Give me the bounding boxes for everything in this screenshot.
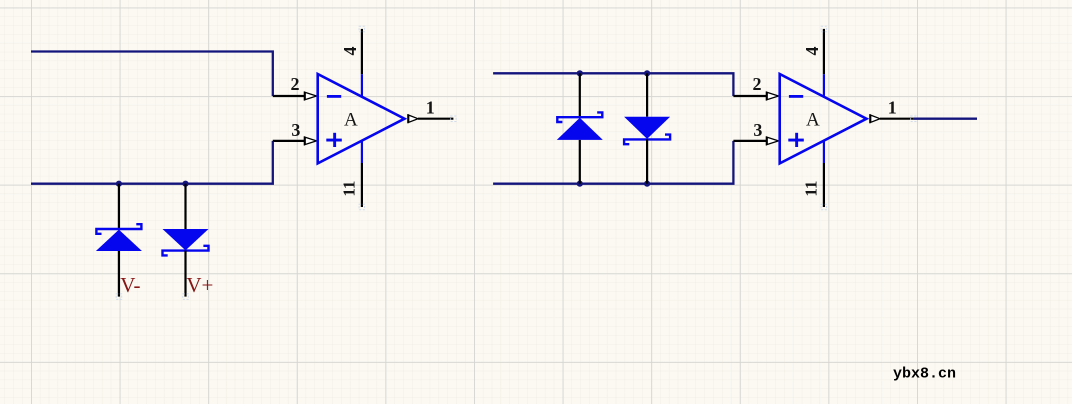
diode D4 lead (top) [646, 73, 648, 116]
op-amp U1 pin 11 (V-) line [361, 141, 363, 207]
op-amp U2 pin 2 stub [733, 95, 766, 97]
op-amp U1 output pin 1 stub [418, 118, 453, 120]
op-amp U2 pin 4 (V+) line [823, 29, 825, 97]
op-amp U2 pin 11 (V-) line [823, 141, 825, 207]
hotspot marker at pin 4 top (U1) [359, 26, 365, 32]
hotspot marker at pin 4 top (U2) [821, 26, 827, 32]
diode D2 lead (bottom) [184, 251, 186, 297]
svg-text:1: 1 [426, 98, 435, 118]
diode D2 body (cathode triangle down) [163, 229, 209, 250]
diode D1 zener cathode bar [96, 224, 141, 234]
svg-text:V-: V- [120, 273, 140, 297]
op-amp U1 pin 2 arrow [304, 91, 318, 100]
diode D2 zener cathode bar [163, 246, 209, 256]
svg-text:11: 11 [340, 181, 359, 197]
op-amp U1 non-inverting plus sign [326, 133, 342, 147]
svg-text:A: A [344, 110, 358, 131]
diode D4 lead (bottom) [646, 139, 648, 183]
hotspot marker at U1 output end [451, 116, 457, 122]
svg-text:1: 1 [888, 98, 897, 118]
op-amp U1 pin 2 stub [273, 95, 305, 97]
op-amp U1 pin 4 (V+) line [361, 29, 363, 97]
op-amp U1 output pin 1 arrow [408, 114, 418, 123]
node junction bottom net at D3 [577, 181, 583, 187]
diode D3 lead (top) [579, 73, 581, 117]
op-amp U1 inverting minus sign [327, 95, 341, 98]
wire: right output net [913, 118, 977, 120]
node junction top net at D4 [644, 70, 650, 76]
hotspot marker at D2 lead end [183, 294, 189, 300]
wire: left top net from input to pin 2 corner [31, 52, 273, 97]
op-amp U1 pin 3 stub [273, 140, 305, 142]
svg-text:3: 3 [753, 120, 762, 140]
hotspot marker at D1 lead end [116, 294, 122, 300]
op-amp U2 pin 2 arrow [766, 91, 780, 100]
diode D1 body (anode triangle up) [96, 230, 142, 251]
op-amp U2 output pin 1 stub [880, 118, 913, 120]
hotspot marker at U2 output pin end [911, 116, 917, 122]
op-amp U2 output pin 1 arrow [870, 114, 880, 123]
svg-text:4: 4 [802, 47, 822, 56]
op-amp U1 body [318, 74, 405, 163]
svg-text:A: A [806, 110, 820, 131]
op-amp U1 pin 3 arrow [304, 136, 318, 145]
svg-text:2: 2 [291, 74, 300, 94]
diode D3 lead (bottom) [579, 140, 581, 184]
svg-text:V+: V+ [186, 273, 213, 297]
diode D4 zener cathode bar [624, 135, 670, 145]
op-amp U2 non-inverting plus sign [788, 133, 804, 147]
diode D3 zener cathode bar [557, 112, 602, 122]
wire: right bottom net from input to pin 3 corner [493, 141, 733, 184]
op-amp U2 pin 3 stub [733, 140, 766, 142]
diode D2 lead (top) [184, 184, 186, 229]
hotspot marker at pin 11 bottom (U1) [359, 204, 365, 210]
op-amp U2 inverting minus sign [789, 95, 803, 98]
hotspot marker at pin 11 bottom (U2) [821, 204, 827, 210]
svg-text:3: 3 [291, 120, 300, 140]
op-amp U2 body [780, 74, 867, 163]
node junction top net at D3 [577, 70, 583, 76]
svg-text:4: 4 [340, 47, 360, 56]
diode D1 lead (top) [118, 184, 120, 229]
op-amp U2 pin 3 arrow [766, 136, 780, 145]
diode D4 body (cathode triangle down) [624, 117, 670, 139]
diode D1 lead (bottom) [118, 251, 120, 297]
diode D3 body (anode triangle up) [557, 118, 603, 140]
wire: right top net from input to pin 2 corner [493, 73, 733, 96]
node junction bottom net at D4 [644, 181, 650, 187]
svg-text:2: 2 [753, 74, 762, 94]
node junction on bottom net at D1 [116, 181, 122, 187]
wire: left bottom net from input to pin 3 corner [31, 141, 273, 184]
svg-text:ybx8.cn: ybx8.cn [893, 366, 956, 383]
node junction on bottom net at D2 [182, 181, 188, 187]
svg-text:11: 11 [802, 181, 821, 197]
